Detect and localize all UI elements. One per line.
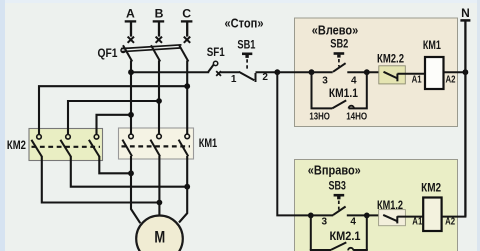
junction SB3 right node: [364, 213, 370, 219]
wire to SB2: [312, 71, 333, 73]
junction motor mid: [157, 200, 163, 206]
wire junction into Влево box: [277, 71, 311, 73]
wire KM2 pole3 output to KM1 pole1 line: [99, 156, 131, 173]
contactor KM2 power contacts box: [29, 129, 103, 161]
KM1 pole 2 contact: [150, 134, 161, 156]
svg-text:1: 1: [231, 74, 237, 85]
svg-text:«Влево»: «Влево»: [312, 22, 359, 37]
KM2 pole 2 contact: [60, 135, 70, 157]
pushbutton SB3 (NO): [333, 195, 346, 215]
junction KM1 pole1 line: [128, 170, 134, 176]
svg-text:3: 3: [322, 75, 328, 86]
junction SB2 right node: [364, 69, 370, 75]
svg-text:2: 2: [262, 72, 268, 83]
svg-text:B: B: [155, 7, 164, 21]
svg-text:«Стоп»: «Стоп»: [225, 16, 264, 30]
box «Вправо» (right-run control branch): [295, 160, 458, 251]
KM1 pole 1 contact: [122, 134, 133, 156]
svg-text:A1: A1: [412, 74, 422, 85]
wire coil KM1 to N: [444, 71, 466, 73]
wire KM1.2 to coil KM2: [397, 216, 423, 218]
circuit breaker QF1 (3-pole): [121, 37, 190, 62]
pushbutton SB2 (NO): [333, 54, 346, 72]
junction SB3 left node: [308, 213, 314, 219]
wire KM2 pole2 output to KM1 pole3 line: [71, 156, 187, 187]
phase terminal A: [125, 21, 137, 36]
KM2 mechanical link (dashed): [32, 146, 101, 148]
svg-text:4: 4: [350, 217, 356, 228]
svg-text:A2: A2: [446, 74, 456, 85]
contactor KM1 power contacts box: [119, 128, 194, 159]
svg-text:M: M: [154, 229, 165, 247]
KM1 mechanical link (dashed): [122, 145, 191, 147]
wire crossover C to KM2 pole 1: [39, 86, 187, 134]
junction on phase A: [128, 112, 134, 118]
junction on phase C: [184, 83, 190, 89]
motor M: [136, 216, 183, 251]
svg-text:A2: A2: [445, 217, 455, 228]
svg-text:SF1: SF1: [207, 45, 225, 59]
svg-text:QF1: QF1: [98, 48, 119, 60]
svg-text:3: 3: [322, 217, 328, 228]
KM1 pole 3 contact: [179, 134, 190, 156]
pushbutton SB1 (Стоп, NC): [239, 54, 256, 82]
wire control tap from phase A to SF1: [131, 71, 209, 73]
auxiliary contact KM1.1 (self-hold): [312, 72, 367, 108]
svg-text:КМ1.1: КМ1.1: [329, 88, 359, 100]
wire crossover B to KM2 pole 2: [68, 101, 159, 134]
coil KM2: [423, 198, 441, 232]
svg-text:13НО: 13НО: [309, 112, 330, 123]
wire phase C down to KM1 pole 3: [186, 61, 188, 135]
wire SB1 to junction: [256, 71, 278, 73]
neutral terminal N: [460, 20, 470, 216]
svg-text:«Вправо»: «Вправо»: [308, 162, 361, 177]
svg-text:КМ1: КМ1: [199, 138, 218, 150]
svg-text:N: N: [461, 6, 470, 20]
KM2 pole 3 contact: [89, 135, 99, 157]
wire coil KM2 to N: [442, 216, 467, 218]
auxiliary contact KM2.1 (self-hold, partially cut): [310, 215, 368, 250]
phase terminal B: [153, 21, 165, 36]
wire SB2 to KM2.2: [347, 71, 384, 73]
junction KM1 pole3 line: [184, 184, 190, 190]
svg-text:КМ2: КМ2: [7, 140, 26, 152]
wire phase A down to KM1 pole 1: [130, 61, 132, 135]
svg-text:КМ1: КМ1: [423, 40, 441, 52]
wire KM2.2 to coil KM1: [397, 73, 425, 75]
svg-text:4: 4: [351, 75, 357, 86]
wire to SB3: [311, 214, 333, 216]
svg-text:КМ2.2: КМ2.2: [377, 54, 404, 66]
svg-text:SB3: SB3: [328, 181, 346, 193]
svg-text:КМ1.2: КМ1.2: [377, 200, 403, 212]
wire crossover A to KM2 pole 3: [97, 115, 132, 135]
box «Влево» (left-run control branch): [295, 18, 458, 127]
wire KM1 pole2 to motor: [158, 156, 160, 217]
junction stop node: [274, 69, 280, 75]
KM2 pole 1 contact: [31, 135, 41, 157]
wire phase B down to KM1 pole 2: [158, 61, 160, 135]
svg-text:A1: A1: [412, 217, 422, 228]
wire stop node down to Вправо branch: [277, 72, 311, 215]
interlock contact KM2.2 (NC): [379, 66, 406, 84]
junction control tap: [128, 69, 134, 75]
svg-text:A: A: [126, 7, 135, 21]
wire SB3 to KM1.2: [347, 214, 384, 216]
svg-text:14НО: 14НО: [346, 112, 367, 123]
wire KM1 pole1 to motor: [131, 156, 140, 223]
svg-text:КМ2: КМ2: [421, 183, 441, 195]
interlock contact KM1.2 (NC): [379, 210, 406, 226]
wire KM2 pole1 output to motor node: [42, 156, 160, 203]
phase terminal C: [181, 21, 193, 36]
junction on phase B: [156, 98, 162, 104]
wire KM1 pole3 to motor: [179, 156, 187, 223]
switch SF1: [208, 61, 221, 76]
svg-text:C: C: [182, 7, 191, 21]
svg-text:КМ2.1: КМ2.1: [330, 231, 362, 243]
coil KM1: [425, 57, 444, 89]
svg-text:SB1: SB1: [237, 38, 255, 52]
junction SB2 left node: [309, 69, 315, 75]
junction on N line: [463, 69, 469, 75]
svg-text:SB2: SB2: [330, 38, 348, 50]
wire SF1 to SB1: [220, 71, 239, 73]
